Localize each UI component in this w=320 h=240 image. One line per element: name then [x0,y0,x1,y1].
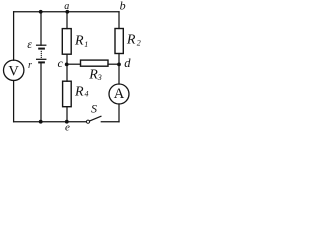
svg-text:A: A [114,86,125,102]
svg-text:e: e [65,122,70,133]
svg-text:ε: ε [27,37,32,51]
svg-text:V: V [8,64,19,80]
svg-text:R: R [126,33,136,48]
svg-text:r: r [28,60,32,71]
svg-text:3: 3 [97,73,102,82]
svg-text:1: 1 [84,40,88,49]
svg-text:R: R [74,84,84,99]
svg-text:4: 4 [85,90,89,99]
svg-text:d: d [124,56,131,70]
svg-text:c: c [58,56,64,70]
svg-text:b: b [120,0,126,13]
svg-text:R: R [88,68,98,83]
svg-text:R: R [74,34,84,49]
svg-text:2: 2 [137,39,141,48]
svg-text:S: S [91,101,97,115]
svg-text:a: a [64,1,69,12]
